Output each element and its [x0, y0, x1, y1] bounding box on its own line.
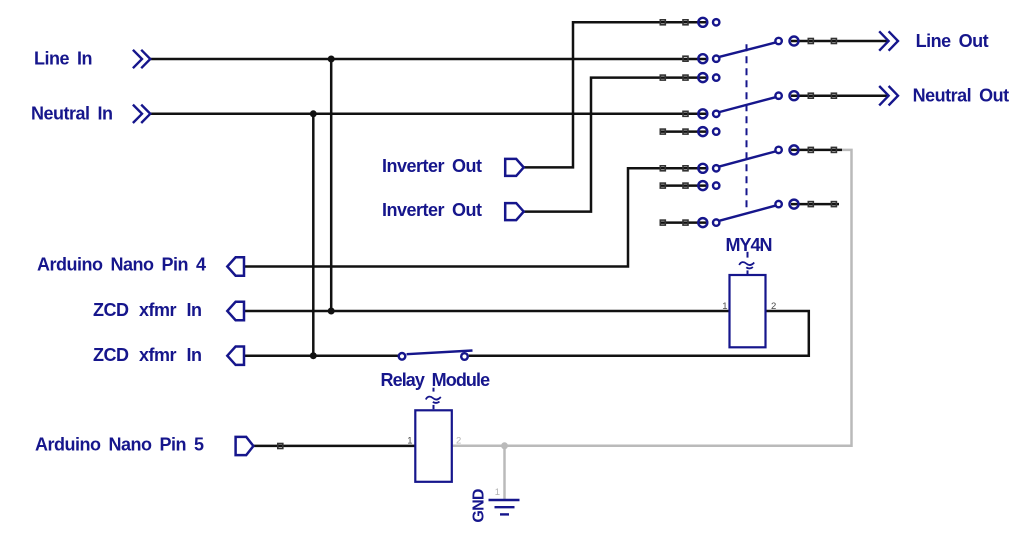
svg-text:2: 2: [456, 435, 461, 446]
svg-text:ZCD xfmr In: ZCD xfmr In: [93, 300, 202, 320]
svg-text:Neutral Out: Neutral Out: [913, 86, 1010, 106]
svg-text:Line In: Line In: [34, 49, 92, 69]
svg-text:Arduino Nano Pin 4: Arduino Nano Pin 4: [37, 255, 206, 275]
svg-text:Line Out: Line Out: [916, 31, 989, 51]
svg-text:MY4N: MY4N: [726, 235, 772, 255]
svg-text:Relay Module: Relay Module: [381, 370, 491, 390]
svg-text:ZCD xfmr In: ZCD xfmr In: [93, 345, 202, 365]
svg-text:1: 1: [495, 487, 500, 498]
svg-text:2: 2: [771, 301, 776, 312]
svg-text:GND: GND: [471, 489, 488, 522]
svg-text:Inverter Out: Inverter Out: [382, 200, 482, 220]
svg-text:Arduino Nano Pin 5: Arduino Nano Pin 5: [35, 434, 204, 454]
svg-text:Inverter Out: Inverter Out: [382, 156, 482, 176]
svg-text:1: 1: [407, 435, 412, 446]
svg-text:Neutral In: Neutral In: [31, 103, 113, 123]
svg-text:1: 1: [722, 301, 727, 312]
